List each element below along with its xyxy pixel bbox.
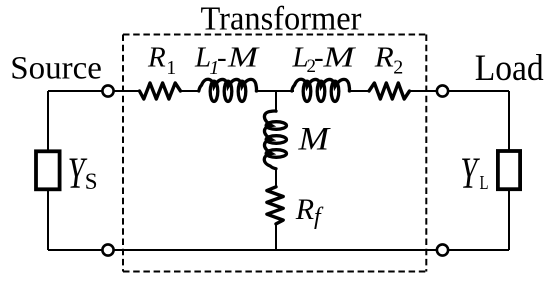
svg-text:R: R — [295, 193, 314, 226]
node terminal bottom-left — [102, 244, 113, 255]
svg-text:Source: Source — [10, 51, 102, 87]
svg-text:1: 1 — [166, 57, 176, 79]
svg-text:2: 2 — [393, 57, 403, 79]
wire M to Rf — [275, 169, 277, 188]
wire right vertical (load branch) — [508, 91, 510, 250]
svg-text:L: L — [480, 172, 489, 194]
svg-text:M: M — [227, 42, 260, 73]
svg-text:-: - — [314, 42, 324, 74]
wire R1 to L1 — [181, 90, 200, 92]
resistor Rf — [267, 187, 283, 224]
node terminal top-left — [102, 85, 113, 96]
wire R2 to load — [410, 90, 510, 92]
wire bottom rail — [48, 249, 509, 251]
wire center branch upper (node T to M) — [275, 91, 277, 112]
wire Rf to bottom rail — [275, 224, 277, 251]
svg-text:Transformer: Transformer — [201, 1, 363, 38]
node terminal top-right — [437, 85, 448, 96]
admittance YL box — [498, 151, 520, 189]
wire L1 to L2 through node T — [256, 90, 294, 92]
inductor M (magnetizing branch) — [264, 111, 286, 169]
wire L2 to R2 — [349, 90, 369, 92]
wire top left (source node to R1) — [48, 90, 140, 92]
resistor R2 — [369, 83, 410, 99]
admittance YS box — [36, 151, 60, 189]
inductor L1-M — [199, 79, 257, 101]
wire left vertical (source branch) — [47, 91, 49, 250]
node terminal bottom-right — [437, 244, 448, 255]
svg-text:M: M — [322, 42, 357, 73]
svg-text:Load: Load — [475, 47, 544, 88]
inductor L2-M — [292, 79, 350, 101]
svg-text:R: R — [374, 42, 394, 74]
svg-text:S: S — [85, 169, 98, 194]
svg-text:M: M — [297, 122, 331, 158]
transformer dashed boundary box — [123, 35, 426, 272]
svg-text:R: R — [147, 42, 166, 74]
svg-text:-: - — [217, 42, 227, 74]
resistor R1 — [140, 83, 181, 99]
